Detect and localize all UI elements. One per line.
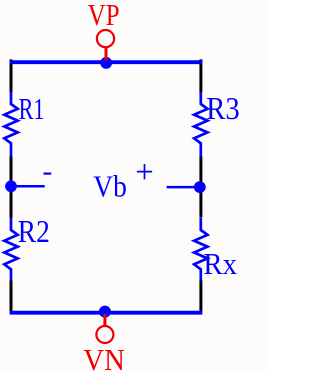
svg-text:VN: VN xyxy=(83,343,125,372)
junction bottom (VN node) xyxy=(99,306,111,318)
wire right upper (top rail to R3) xyxy=(199,59,202,92)
svg-text:R3: R3 xyxy=(206,91,239,127)
wire bottom (VN rail) xyxy=(10,311,203,315)
svg-text:Rx: Rx xyxy=(203,247,237,281)
junction left (Vb- node) xyxy=(5,180,17,192)
resistor R3 xyxy=(194,92,207,157)
svg-text:R2: R2 xyxy=(18,215,50,249)
wire top (VP rail) xyxy=(10,60,203,64)
resistor Rx xyxy=(194,218,207,281)
svg-text:VP: VP xyxy=(88,0,120,33)
junction right (Vb+ node) xyxy=(194,181,206,193)
label minus (Vb negative polarity) xyxy=(44,173,52,175)
terminal VP (open circle) xyxy=(97,30,114,47)
wire left lower (R2 to bottom rail) xyxy=(10,280,13,313)
label plus (Vb positive polarity) xyxy=(137,164,152,179)
terminal VN (open circle) xyxy=(96,326,113,343)
resistor R2 xyxy=(4,218,17,281)
terminal VN stub xyxy=(103,314,106,326)
wire stub Vb- xyxy=(11,185,45,188)
wire stub Vb+ xyxy=(167,186,200,189)
terminal VP stub xyxy=(105,47,108,60)
wire left middle (R1 to R2 through Vb- node) xyxy=(10,156,13,218)
wire right lower (Rx to bottom rail) xyxy=(199,280,202,313)
junction top (VP node) xyxy=(100,57,112,69)
wire left upper (top rail to R1) xyxy=(10,59,13,92)
svg-text:R1: R1 xyxy=(19,91,45,125)
resistor R1 xyxy=(4,92,17,157)
svg-text:Vb: Vb xyxy=(93,170,126,204)
wire right middle (R3 to Rx through Vb+ node) xyxy=(199,156,202,217)
